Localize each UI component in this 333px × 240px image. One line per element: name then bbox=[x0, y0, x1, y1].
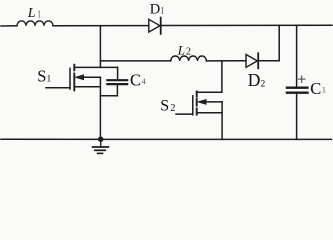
wire S2 source to bottom rail bbox=[221, 102, 223, 139]
wire S1 drain line bbox=[74, 66, 117, 68]
wire top rail middle segment bbox=[53, 25, 149, 27]
svg-text:L2: L2 bbox=[177, 42, 191, 57]
transistor S1 bbox=[46, 65, 100, 91]
svg-text:D2: D2 bbox=[248, 70, 266, 90]
wire C4 bottom to source vertical bbox=[100, 95, 117, 97]
capacitor C1 bbox=[287, 25, 308, 139]
ground bbox=[93, 139, 109, 153]
svg-text:D1: D1 bbox=[150, 1, 165, 17]
svg-text:L1: L1 bbox=[27, 6, 42, 21]
svg-text:S2: S2 bbox=[160, 98, 175, 115]
transistor S2 bbox=[176, 92, 222, 115]
svg-text:C1: C1 bbox=[310, 79, 326, 98]
capacitor C4 bbox=[107, 67, 127, 95]
svg-text:C4: C4 bbox=[130, 70, 146, 89]
wire D2 output to top rail bbox=[259, 25, 279, 60]
wire top rail right segment bbox=[162, 24, 332, 26]
diode D2 bbox=[246, 53, 258, 68]
wire S2 drain to L2/D2 node bbox=[197, 61, 222, 92]
node ground junction dot bbox=[98, 137, 103, 142]
svg-text:S1: S1 bbox=[37, 66, 51, 85]
inductor L2 bbox=[171, 56, 207, 61]
wire S1 source/ground vertical bbox=[99, 77, 101, 139]
wire top rail left segment bbox=[1, 25, 17, 27]
diode D1 bbox=[149, 18, 161, 34]
plus sign of C1 bbox=[299, 76, 306, 83]
wire node A vertical (top rail to S1 drain) bbox=[99, 26, 101, 67]
wire L2 line left bbox=[100, 60, 170, 62]
wire bottom rail bbox=[1, 138, 332, 140]
inductor L1 bbox=[17, 21, 53, 26]
wire L2 to D2 bbox=[206, 60, 246, 62]
